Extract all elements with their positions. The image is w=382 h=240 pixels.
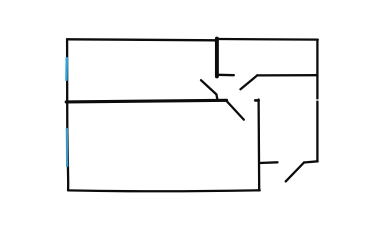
wire door leaf diagonal upper left bbox=[201, 80, 217, 99]
wire left outer wall bbox=[67, 39, 68, 190]
wire door leaf diagonal bottom right bbox=[286, 163, 304, 182]
wire inner vertical wall bbox=[257, 100, 260, 191]
wire blue window segment lower bbox=[66, 128, 69, 167]
wire door stub bbox=[260, 161, 278, 164]
wire right outer wall bbox=[316, 40, 318, 162]
wire inner wall top serif bbox=[255, 99, 258, 102]
wire top wall right room bbox=[218, 38, 318, 41]
wire jamb stub bbox=[218, 74, 234, 77]
wire bottom right wall segment bbox=[304, 161, 318, 162]
wire door leaf diagonal upper right bbox=[241, 75, 258, 89]
wire thick middle wall bbox=[66, 100, 226, 102]
wire blue window segment upper bbox=[65, 57, 68, 81]
wire thick door-jamb bar bbox=[215, 39, 219, 77]
wire bottom wall bbox=[68, 189, 260, 192]
node notch on right wall bbox=[316, 99, 319, 101]
wire mid wall right segment bbox=[257, 74, 317, 77]
wire top wall left room bbox=[67, 39, 216, 40]
wire door leaf diagonal middle bbox=[227, 101, 244, 120]
